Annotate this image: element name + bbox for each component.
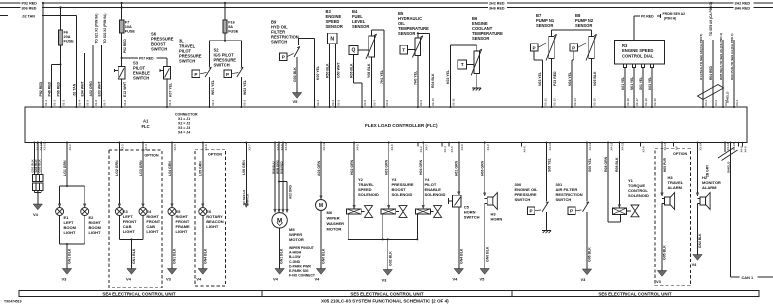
svg-text:A1: A1 (143, 119, 149, 124)
svg-text:L04 GRN: L04 GRN (168, 161, 172, 176)
svg-text:X1-2: X1-2 (53, 100, 57, 106)
svg-text:SOLENOID: SOLENOID (392, 192, 413, 197)
svg-text:S06 YEL: S06 YEL (547, 157, 551, 172)
svg-text:WIPER PINOUT: WIPER PINOUT (289, 246, 315, 250)
svg-text:G03 BLK: G03 BLK (38, 159, 42, 173)
svg-text:E12 WHT: E12 WHT (123, 81, 127, 97)
svg-text:E03 WHT: E03 WHT (98, 80, 102, 96)
svg-text:X3-4: X3-4 (144, 144, 148, 150)
svg-text:LIGHT: LIGHT (206, 224, 219, 229)
svg-text:V4: V4 (692, 262, 698, 267)
svg-text:P02 RED: P02 RED (123, 39, 127, 53)
svg-text:3H6 RED: 3H6 RED (735, 6, 751, 10)
svg-text:X3 = J3: X3 = J3 (178, 126, 190, 130)
svg-text:Q: Q (352, 48, 356, 54)
svg-text:SE4 ELECTRICAL CONTROL UNIT: SE4 ELECTRICAL CONTROL UNIT (102, 291, 176, 296)
svg-text:A-HIGH: A-HIGH (289, 251, 302, 255)
svg-text:FUSE: FUSE (125, 30, 136, 34)
svg-text:TO SE9 A9 (CA P9N G): TO SE9 A9 (CA P9N G) (709, 2, 713, 36)
svg-text:SOLENOID: SOLENOID (425, 192, 446, 197)
svg-text:X1-1: X1-1 (44, 100, 48, 106)
svg-text:B-LOW: B-LOW (289, 255, 301, 259)
svg-text:X2-11: X2-11 (452, 98, 456, 106)
svg-text:2H2 RED: 2H2 RED (735, 2, 751, 6)
svg-text:X1-4: X1-4 (78, 100, 82, 106)
svg-text:SOLENOID: SOLENOID (628, 193, 649, 198)
svg-text:.02 TAN: .02 TAN (73, 83, 77, 96)
svg-text:SENSOR: SENSOR (398, 31, 415, 36)
svg-text:X05 210LC-03 SYSTEM FUNCTIONAL: X05 210LC-03 SYSTEM FUNCTIONAL SCHEMATIC… (321, 299, 449, 304)
svg-text:SENSOR: SENSOR (352, 24, 369, 29)
svg-text:SENSOR: SENSOR (472, 36, 489, 41)
svg-text:H02 GRN: H02 GRN (350, 159, 354, 175)
svg-text:7H1 YEL: 7H1 YEL (380, 69, 384, 84)
svg-text:R08 BLK: R08 BLK (615, 157, 619, 172)
svg-text:GN1 BLK: GN1 BLK (68, 248, 72, 264)
svg-text:X3-13: X3-13 (663, 142, 667, 150)
svg-text:X4-4: X4-4 (735, 100, 739, 106)
svg-text:P: P (226, 72, 229, 77)
svg-text:LIGHT: LIGHT (123, 229, 136, 234)
svg-text:GN1 BLK: GN1 BLK (280, 248, 284, 264)
svg-text:X2-19: X2-19 (653, 98, 657, 106)
svg-text:V4: V4 (453, 277, 459, 282)
svg-text:GN1 BLK: GN1 BLK (173, 248, 177, 264)
svg-text:X3-11: X3-11 (322, 143, 326, 151)
svg-text:SENSOR: SENSOR (536, 23, 553, 28)
svg-text:L05 GRN: L05 GRN (199, 161, 203, 176)
svg-text:V3: V3 (62, 277, 68, 282)
svg-text:X2-7: X2-7 (373, 100, 377, 106)
svg-text:X3-6: X3-6 (642, 146, 646, 152)
svg-text:N01 YEL: N01 YEL (630, 77, 634, 90)
svg-text:M6: M6 (327, 210, 333, 215)
svg-text:L06 GRN: L06 GRN (242, 160, 246, 175)
svg-text:P: P (533, 45, 536, 50)
svg-text:P: P (570, 209, 573, 214)
svg-text:FUSE: FUSE (228, 30, 239, 34)
svg-text:X2-1: X2-1 (211, 100, 215, 106)
svg-text:N03 YEL: N03 YEL (538, 71, 542, 86)
svg-text:P96 RED: P96 RED (57, 81, 61, 96)
svg-text:GN0 BLK: GN0 BLK (485, 246, 489, 262)
svg-text:X4-3: X4-3 (724, 100, 728, 106)
svg-text:X4-7: X4-7 (424, 144, 428, 150)
svg-text:X2-5: X2-5 (337, 100, 341, 106)
svg-text:X4-15: X4-15 (732, 142, 736, 150)
svg-text:N04 YEL: N04 YEL (568, 71, 572, 86)
svg-text:LG3 GRN: LG3 GRN (139, 160, 143, 176)
svg-text:X1-6: X1-6 (94, 100, 98, 106)
svg-text:R08 RED: R08 RED (279, 160, 283, 174)
svg-text:X2-17: X2-17 (635, 98, 639, 106)
svg-text:X1-13: X1-13 (42, 142, 46, 150)
svg-text:X4-5: X4-5 (355, 144, 359, 150)
svg-text:C-GND: C-GND (289, 260, 301, 264)
svg-text:OPTION: OPTION (208, 153, 222, 157)
svg-text:V4: V4 (126, 277, 132, 282)
svg-text:OPTION: OPTION (673, 152, 687, 156)
svg-text:TX0474519: TX0474519 (4, 300, 22, 304)
svg-text:K07 YEL: K07 YEL (168, 82, 172, 97)
svg-text:CONTROL DIAL: CONTROL DIAL (622, 54, 654, 59)
svg-text:ALARM: ALARM (668, 185, 683, 190)
svg-text:X4-4: X4-4 (443, 146, 447, 152)
svg-text:X4-8: X4-8 (460, 144, 464, 150)
svg-text:SWITCH: SWITCH (515, 197, 531, 202)
svg-text:SWITCH: SWITCH (179, 59, 195, 64)
svg-text:A02 ORG: A02 ORG (288, 184, 292, 199)
svg-text:G05 BLK: G05 BLK (663, 245, 667, 260)
svg-text:X3-14: X3-14 (699, 142, 703, 150)
svg-text:CONNECTOR: CONNECTOR (175, 113, 198, 117)
svg-text:X1-7: X1-7 (103, 100, 107, 106)
svg-text:X1-9: X1-9 (168, 100, 172, 106)
svg-text:X2-16: X2-16 (626, 98, 630, 106)
svg-text:SWITCH: SWITCH (214, 63, 230, 68)
svg-text:5A: 5A (228, 25, 233, 29)
svg-text:K02 YEL: K02 YEL (446, 69, 450, 84)
svg-text:A04 GRN: A04 GRN (317, 160, 321, 176)
svg-text:SWITCH: SWITCH (151, 47, 167, 52)
svg-text:H01 GRN: H01 GRN (455, 160, 459, 176)
svg-text:X2-4: X2-4 (331, 100, 335, 106)
svg-text:X4-1: X4-1 (704, 100, 708, 106)
svg-text:G02 BLK: G02 BLK (388, 251, 392, 266)
svg-text:K03 YEL: K03 YEL (648, 77, 652, 90)
svg-text:TO S21 X2 (P9N 9A): TO S21 X2 (P9N 9A) (95, 14, 99, 44)
svg-text:R08 GRN: R08 GRN (604, 156, 608, 172)
svg-text:LIGHT: LIGHT (64, 230, 77, 235)
svg-text:P: P (572, 45, 575, 50)
svg-text:SENSOR: SENSOR (326, 24, 343, 29)
svg-text:V3: V3 (382, 278, 388, 283)
svg-text:MOTOR: MOTOR (327, 227, 342, 232)
svg-text:X2-10: X2-10 (431, 98, 435, 106)
svg-text:X2-2: X2-2 (243, 100, 247, 106)
svg-text:S01 YEL: S01 YEL (639, 77, 643, 90)
svg-text:ENGINE SPEED: ENGINE SPEED (622, 48, 653, 53)
svg-text:X1-3: X1-3 (62, 100, 66, 106)
svg-text:N05 BLK: N05 BLK (593, 71, 597, 86)
svg-text:X2-3: X2-3 (316, 100, 320, 106)
svg-text:P46 RED: P46 RED (48, 81, 52, 96)
svg-text:MOTOR: MOTOR (289, 237, 304, 242)
svg-text:E04 WHT: E04 WHT (81, 80, 85, 96)
svg-text:ALARM: ALARM (702, 185, 717, 190)
svg-text:G03 BLK: G03 BLK (293, 67, 297, 82)
svg-text:SHIELD: SHIELD (727, 161, 731, 173)
svg-text:V3: V3 (166, 277, 172, 282)
svg-text:P23 RED: P23 RED (553, 71, 557, 86)
svg-text:F-NO CONNECT: F-NO CONNECT (289, 274, 316, 278)
svg-text:X4-10: X4-10 (548, 142, 552, 150)
svg-text:306 RED: 306 RED (22, 6, 37, 10)
svg-text:X2 = J2: X2 = J2 (178, 122, 190, 126)
svg-text:X4-2: X4-2 (714, 100, 718, 106)
svg-text:FUSE: FUSE (64, 40, 75, 44)
svg-text:LIGHT: LIGHT (176, 229, 189, 234)
svg-text:Y08 BLK: Y08 BLK (367, 63, 371, 78)
svg-text:F16: F16 (228, 21, 235, 25)
svg-text:X4-12: X4-12 (609, 142, 613, 150)
svg-text:H04 GRN: H04 GRN (419, 159, 423, 175)
svg-text:T: T (402, 47, 405, 53)
svg-text:CAN 1: CAN 1 (742, 275, 755, 280)
svg-text:GN0 BLK: GN0 BLK (322, 248, 326, 264)
svg-text:X2-12: X2-12 (544, 98, 548, 106)
svg-text:P92 RED: P92 RED (39, 81, 43, 96)
svg-text:LG2 GRN: LG2 GRN (115, 160, 119, 176)
svg-text:SENSOR: SENSOR (575, 23, 592, 28)
svg-text:G50 WHT: G50 WHT (337, 62, 341, 78)
svg-text:W05 WHT-TO SE9 A6 (C6 P9N 4): W05 WHT-TO SE9 A6 (C6 P9N 4) (719, 33, 723, 80)
svg-text:SWITCH: SWITCH (556, 197, 572, 202)
svg-text:V4: V4 (273, 277, 279, 282)
svg-text:LIGHT: LIGHT (146, 229, 159, 234)
svg-text:H05 PUR: H05 PUR (663, 157, 667, 172)
svg-text:X4-9: X4-9 (744, 146, 748, 152)
svg-text:R04 RED: R04 RED (709, 65, 713, 80)
svg-text:LIGHT: LIGHT (89, 230, 102, 235)
svg-text:X4-6: X4-6 (390, 144, 394, 150)
svg-text:X1-8: X1-8 (123, 100, 127, 106)
svg-text:X4-13: X4-13 (621, 142, 625, 150)
svg-text:GN4 BLK: GN4 BLK (459, 248, 463, 264)
svg-text:H03 GRN: H03 GRN (385, 159, 389, 175)
svg-text:HORN: HORN (491, 217, 503, 222)
svg-text:V3: V3 (656, 279, 662, 284)
svg-text:V4: V4 (315, 277, 321, 282)
svg-text:X2-14: X2-14 (573, 98, 577, 106)
svg-text:W01 YEL: W01 YEL (211, 79, 215, 95)
svg-text:F6: F6 (64, 31, 68, 35)
svg-text:A02 ORG: A02 ORG (89, 81, 93, 97)
svg-text:X4-2: X4-2 (419, 146, 423, 152)
svg-text:D-PARK PWR: D-PARK PWR (289, 264, 311, 268)
svg-text:SOLENOID: SOLENOID (358, 192, 379, 197)
svg-text:X4 = J4: X4 = J4 (178, 131, 190, 135)
svg-text:S00 YEL: S00 YEL (588, 157, 592, 172)
svg-text:X4-9: X4-9 (486, 144, 490, 150)
svg-text:X2-6: X2-6 (363, 100, 367, 106)
svg-text:R50 BLK: R50 BLK (325, 63, 329, 78)
svg-text:V3: V3 (581, 277, 587, 282)
svg-text:V5: V5 (480, 277, 486, 282)
svg-text:V4: V4 (196, 277, 202, 282)
svg-text:R06 BLK: R06 BLK (349, 63, 353, 78)
svg-text:SE6 ELECTRICAL CONTROL UNIT: SE6 ELECTRICAL CONTROL UNIT (598, 291, 672, 296)
svg-text:V4: V4 (33, 212, 39, 217)
svg-text:K00 YEL: K00 YEL (316, 65, 320, 80)
svg-text:FLC: FLC (142, 124, 150, 129)
svg-text:7H0 YEL: 7H0 YEL (414, 70, 418, 85)
svg-text:P07 RED: P07 RED (139, 56, 154, 60)
svg-text:R14 BLK-TO SE9 A8 (CA P9N 5): R14 BLK-TO SE9 A8 (CA P9N 5) (699, 34, 703, 80)
svg-text:N: N (330, 36, 334, 42)
svg-text:H06 GRN: H06 GRN (481, 160, 485, 176)
svg-text:X3-5: X3-5 (173, 144, 177, 150)
svg-text:R02 PUR-TO SE9 A4 (CA P9N 4): R02 PUR-TO SE9 A4 (CA P9N 4) (730, 34, 734, 80)
svg-text:TO S22 X2 (P9N 6A): TO S22 X2 (P9N 6A) (103, 14, 107, 44)
svg-text:X2-13: X2-13 (553, 98, 557, 106)
svg-text:X4-11: X4-11 (588, 143, 592, 151)
svg-text:2H2 RED: 2H2 RED (489, 2, 505, 6)
svg-text:X3-10: X3-10 (284, 142, 288, 150)
svg-text:SE5 ELECTRICAL CONTROL UNIT: SE5 ELECTRICAL CONTROL UNIT (350, 291, 424, 296)
svg-text:M: M (319, 203, 323, 209)
svg-text:G06 BLK: G06 BLK (588, 247, 592, 262)
svg-text:X2-18: X2-18 (644, 98, 648, 106)
svg-text:P92 RED: P92 RED (22, 2, 38, 6)
svg-text:X1 = J1: X1 = J1 (178, 117, 190, 121)
svg-text:FLEX LOAD CONTROLLER (FLC): FLEX LOAD CONTROLLER (FLC) (365, 123, 438, 128)
svg-text:X2-15: X2-15 (593, 98, 597, 106)
svg-text:X4-14: X4-14 (726, 142, 730, 150)
svg-text:OPTION: OPTION (144, 153, 158, 157)
svg-text:.02 TAN: .02 TAN (22, 14, 36, 18)
svg-text:F7: F7 (125, 21, 129, 25)
svg-text:K01 YEL: K01 YEL (621, 77, 625, 90)
svg-text:T: T (461, 62, 464, 68)
svg-text:P: P (194, 72, 197, 77)
svg-text:X4-5: X4-5 (450, 146, 454, 152)
svg-text:WIPER: WIPER (327, 216, 340, 221)
svg-text:20A: 20A (64, 35, 71, 39)
svg-text:X1-5: X1-5 (86, 100, 90, 106)
svg-text:SWITCH: SWITCH (271, 40, 287, 45)
svg-text:R04 BLK: R04 BLK (431, 73, 435, 88)
svg-text:GN4 BLK: GN4 BLK (698, 233, 702, 248)
svg-text:P: P (530, 209, 533, 214)
svg-text:X3-3: X3-3 (121, 144, 125, 150)
svg-text:SWITCH: SWITCH (464, 215, 480, 220)
svg-text:10A: 10A (125, 25, 132, 29)
svg-text:X2-9: X2-9 (419, 100, 423, 106)
svg-text:SWITCH: SWITCH (133, 76, 149, 81)
svg-text:W02 YEL: W02 YEL (243, 79, 247, 95)
svg-text:WASHER: WASHER (327, 221, 345, 226)
svg-text:E-PARK SIG: E-PARK SIG (289, 269, 309, 273)
svg-text:GN4 BLK: GN4 BLK (203, 248, 207, 264)
svg-text:X3-7: X3-7 (248, 144, 252, 150)
svg-text:(P9N H): (P9N H) (664, 17, 676, 21)
svg-text:P0 RED: P0 RED (641, 15, 654, 19)
svg-text:X3-2: X3-2 (68, 144, 72, 150)
svg-text:3H6 RED: 3H6 RED (489, 6, 505, 10)
svg-text:X2-8: X2-8 (385, 100, 389, 106)
svg-text:R3: R3 (622, 43, 628, 48)
svg-text:X4-8: X4-8 (523, 146, 527, 152)
svg-text:LG1 GRN: LG1 GRN (63, 160, 67, 176)
svg-text:P: P (282, 55, 285, 60)
svg-text:GN1 BLK: GN1 BLK (132, 248, 136, 264)
svg-text:V5: V5 (293, 99, 299, 104)
svg-text:FROM SE9 A2: FROM SE9 A2 (663, 12, 686, 16)
